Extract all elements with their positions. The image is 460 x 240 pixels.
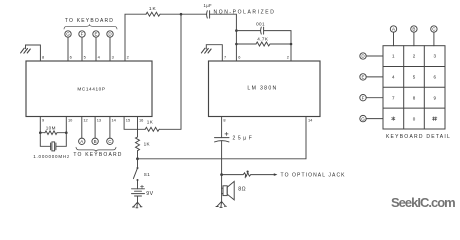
svg-text:6: 6 [238,54,240,59]
node B (circle) [92,117,98,145]
svg-text:E: E [94,32,97,37]
svg-text:13: 13 [97,117,101,122]
node F (circle) [79,31,85,37]
svg-text:1K: 1K [149,6,157,12]
IC U1 MC14410P [26,61,152,117]
wire resistor row [40,132,66,134]
wire feedback bottom branch [236,43,291,45]
svg-text:8: 8 [223,117,225,122]
svg-text:A: A [80,139,83,144]
resistor R1 1K (tone output) [146,12,160,16]
ground G2 (pin 7 of U2) [201,48,211,53]
svg-text:G: G [66,32,70,37]
wire R1 to node N1 [160,13,206,15]
node N3 junction (pin6 lower) [235,43,238,46]
svg-text:1K: 1K [144,142,151,147]
node C keypad (circle) [431,26,437,46]
svg-text:9: 9 [42,117,44,122]
brace over G F E D [64,25,117,29]
node A keypad (circle) [390,26,396,46]
wire gnd to pin 7 [206,45,222,61]
svg-text:G: G [361,116,365,121]
node A (circle) [79,117,85,145]
wire R2 to node N1 vertical [159,14,181,129]
svg-text:A: A [392,27,395,32]
svg-text:TO KEYBOARD: TO KEYBOARD [73,152,122,158]
svg-text:4.7K: 4.7K [257,36,269,41]
resistor R4 4.7K [256,42,270,46]
svg-text:6: 6 [70,54,72,59]
svg-text:S1: S1 [144,172,150,177]
svg-text:10M: 10M [46,126,56,131]
node N6 junction [65,131,68,134]
resistor R3 1K (vertical) [136,137,140,151]
wire feedback top branch [236,31,291,61]
node N8 junction [220,173,223,176]
svg-text:1µF: 1µF [204,3,213,8]
svg-text:1K: 1K [147,119,154,124]
wire pin2 up to tone output line [125,14,146,61]
resistor R2 1K (horizontal) [145,127,159,131]
node E (circle) [93,31,99,37]
brace under A B C [76,147,116,151]
ground G4 (speaker) [216,202,226,208]
svg-text:1.000000MHz: 1.000000MHz [33,154,70,159]
wire to optional jack with arrow [251,174,276,176]
capacitor C2 .001 [261,27,264,34]
svg-text:8Ω: 8Ω [238,187,246,193]
svg-text:KEYBOARD DETAIL: KEYBOARD DETAIL [386,134,451,140]
svg-text:F: F [362,95,365,100]
svg-text:3: 3 [112,54,114,59]
svg-text:MC14410P: MC14410P [77,87,105,92]
svg-text:12: 12 [83,117,87,122]
battery B1 9V [132,181,145,202]
svg-text:8: 8 [42,54,44,59]
svg-text:F: F [81,32,84,37]
svg-text:E: E [361,75,364,80]
IC U2 LM380N [209,61,321,117]
svg-text:5: 5 [84,54,86,59]
node D keypad (circle) [360,53,383,59]
svg-text:2: 2 [287,54,289,59]
svg-text:LM 380N: LM 380N [247,86,277,92]
svg-text:B: B [412,27,415,32]
ground G1 (pin 8) [21,48,31,53]
svg-text:9V: 9V [146,191,153,197]
resistor R5 10M [45,131,57,135]
node E keypad (circle) [360,74,383,80]
speaker LS1 [222,175,235,202]
wire C1 to pin 6 of U2 [210,14,237,61]
svg-text:25µF: 25µF [233,136,255,142]
node C (circle) [107,117,113,145]
svg-text:2: 2 [127,54,129,59]
svg-text:16: 16 [139,117,143,122]
svg-text:B: B [94,139,97,144]
wire F to pin 5 [81,37,83,61]
node N4 junction (pin2 branch) [290,43,293,46]
node N7 supply junction [136,157,139,160]
wire gnd to pin 8 [26,45,41,61]
key hash [432,117,437,121]
switch S1 [133,159,138,181]
svg-text:SeekIC.com: SeekIC.com [391,195,455,210]
wire pin 16 to R3 [137,117,139,138]
capacitor C1 1uF non-polarized [207,11,210,18]
capacitor C3 25uF [215,132,230,142]
wire pin 15 to R2 [124,117,145,130]
node B keypad (circle) [411,26,417,46]
node F keypad (circle) [360,95,383,101]
wire C3 to speaker node (crosses supply rail) [221,141,223,175]
pin 9 wire and label [39,117,41,133]
svg-text:TO KEYBOARD: TO KEYBOARD [65,18,114,24]
node D (circle) [107,31,113,37]
pin 10 wire and label [65,117,67,133]
svg-text:001: 001 [256,22,265,27]
node G (circle) [65,31,71,37]
wire E to pin 4 [95,37,97,61]
svg-text:15: 15 [126,117,130,122]
jack J1 (closed-circuit) [222,171,251,178]
ground G3 (battery) [132,202,142,208]
key star [392,117,395,120]
wire D to pin 3 [109,37,111,61]
node N2 junction (pin6 top) [235,29,238,32]
node N5 junction [39,131,42,134]
wire R3 to supply node [137,151,139,159]
wire supply rail to pin 14 of U2 [138,117,307,159]
svg-text:7: 7 [224,54,226,59]
node N1 junction [180,13,183,16]
crystal Y1 [40,133,66,151]
keypad grid [383,46,445,129]
node G keypad (circle) [360,115,383,121]
svg-text:TO OPTIONAL JACK: TO OPTIONAL JACK [281,173,346,179]
wire G to pin 6 [67,37,69,61]
wire pin 8 to C3 [221,117,223,138]
